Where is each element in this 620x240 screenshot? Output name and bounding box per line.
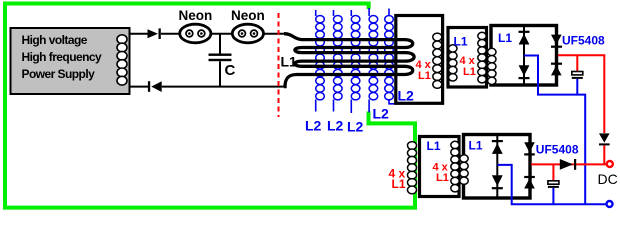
svg-text:DC: DC [598,171,618,187]
svg-text:L2: L2 [347,119,364,135]
svg-text:High voltage: High voltage [22,33,88,47]
svg-text:L2: L2 [398,88,415,104]
svg-text:UF5408: UF5408 [562,34,605,48]
svg-text:L2: L2 [327,118,344,134]
svg-text:L1: L1 [418,70,431,82]
svg-text:L1: L1 [436,172,449,184]
svg-text:High frequency: High frequency [22,50,103,64]
svg-text:Neon: Neon [231,8,265,23]
svg-text:L1: L1 [454,35,468,49]
svg-text:L1: L1 [463,66,476,78]
svg-text:C: C [225,62,236,79]
svg-text:L2: L2 [305,118,322,134]
svg-text:Power Supply: Power Supply [22,67,96,81]
svg-text:Neon: Neon [179,8,213,23]
svg-text:L2: L2 [373,106,390,122]
svg-text:L1: L1 [498,31,512,45]
svg-text:UF5408: UF5408 [536,143,579,157]
svg-text:L1: L1 [392,177,406,191]
svg-text:L1: L1 [427,139,441,153]
svg-text:L1: L1 [469,139,483,153]
